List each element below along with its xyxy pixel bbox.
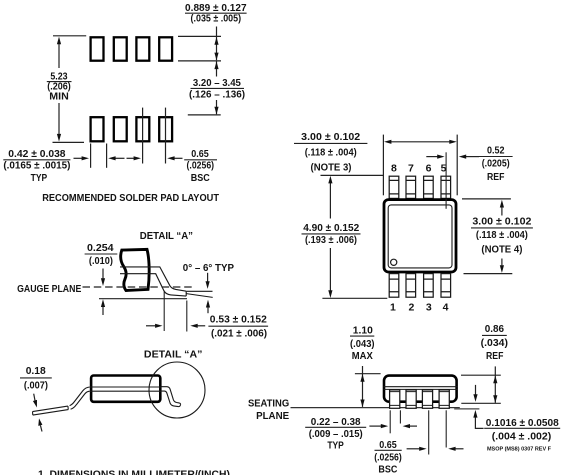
svg-text:(.007): (.007)	[24, 379, 48, 391]
fraction bar 0.65 leads	[375, 449, 402, 451]
svg-text:3: 3	[426, 302, 432, 314]
standoff tick below seating	[454, 408, 479, 410]
dim 4.90 top extension line	[321, 174, 384, 176]
arrowhead 0.889 down	[214, 53, 218, 61]
top view 3.00 dimension line	[391, 141, 450, 143]
svg-text:DETAIL “A”: DETAIL “A”	[144, 349, 203, 361]
arrowhead 0.53 right	[155, 324, 162, 328]
svg-text:RECOMMENDED SOLDER PAD LAYOUT: RECOMMENDED SOLDER PAD LAYOUT	[42, 192, 219, 204]
svg-text:(NOTE 3): (NOTE 3)	[311, 161, 352, 173]
arrowhead 0.53 left	[190, 324, 197, 328]
svg-text:0.1016 ± 0.0508: 0.1016 ± 0.0508	[486, 417, 559, 429]
dim 0.18 down arrow	[34, 394, 35, 401]
side view mold line lower	[90, 390, 162, 392]
svg-text:(.193 ± .006): (.193 ± .006)	[305, 234, 357, 246]
top view 3.00 left extension line	[382, 135, 384, 196]
dim 0.42 right-pointing arrow stem	[74, 157, 83, 159]
arrowhead 4.90 up	[328, 176, 332, 184]
svg-text:BSC: BSC	[191, 172, 210, 184]
arrowhead angle down	[206, 281, 210, 289]
pad3 center line	[142, 108, 144, 164]
svg-text:BSC: BSC	[378, 463, 397, 475]
svg-text:TYP: TYP	[327, 440, 344, 452]
svg-text:8: 8	[391, 162, 397, 174]
svg-text:(.034): (.034)	[481, 337, 508, 349]
dim 0.889 vertical stem	[216, 27, 218, 61]
dim 0.889 extension line lower	[178, 60, 221, 62]
dim 0.86 bottom tick	[461, 402, 501, 404]
arrowhead 0.65 pads right	[134, 156, 141, 160]
detail A seating reference line	[99, 298, 187, 300]
arrowhead 0.22 right	[381, 424, 388, 428]
arrowhead 1.10 up	[360, 374, 364, 382]
dim 0.65 pads left-pointing arrow stem	[174, 157, 182, 159]
lead 3 side	[422, 390, 432, 408]
pad top 1	[91, 37, 104, 60]
svg-text:4: 4	[443, 302, 449, 314]
svg-text:1. DIMENSIONS IN MILLIMETER/(I: 1. DIMENSIONS IN MILLIMETER/(INCH)	[38, 469, 230, 475]
arrowhead 0.254 up	[101, 299, 105, 307]
arrowhead 0.42 right	[82, 156, 89, 160]
dim 0.52 extension inside body	[445, 199, 447, 209]
dim 0.52 extension line through pin 5	[445, 152, 447, 209]
lead 1 inner lines	[390, 392, 400, 406]
detail A lead tip edge	[185, 291, 187, 296]
svg-text:(.118 ± .004): (.118 ± .004)	[476, 229, 528, 241]
dim 0.65 right extension line	[445, 410, 447, 447]
solder pad layout: top row pads	[91, 37, 172, 141]
arrowhead note4 up	[500, 200, 504, 208]
pad4 center line	[165, 108, 167, 164]
svg-text:TYP: TYP	[31, 172, 48, 184]
svg-text:4.90 ± 0.152: 4.90 ± 0.152	[303, 222, 359, 234]
arrowhead standoff down	[473, 394, 477, 402]
left lead flat strip	[33, 406, 69, 415]
fraction bar 1.10	[350, 335, 374, 337]
fraction bar 0.22	[305, 426, 366, 428]
dim 0.42 left-pointing arrow stem	[115, 157, 124, 159]
arrowhead 3.20 up	[214, 61, 218, 69]
svg-text:(.0205): (.0205)	[482, 158, 510, 170]
dim 0.254 down arrow stem	[102, 269, 104, 279]
svg-text:7: 7	[408, 162, 414, 174]
svg-text:0.18: 0.18	[26, 365, 46, 377]
svg-text:(.118 ± .004): (.118 ± .004)	[305, 146, 357, 158]
angle reference line horizontal	[186, 290, 212, 292]
dim 5.23 bottom extension line	[53, 141, 85, 143]
svg-text:3.00 ± 0.102: 3.00 ± 0.102	[301, 131, 360, 143]
dim 0.86 top tick	[461, 374, 501, 376]
svg-text:(.009 – .015): (.009 – .015)	[309, 428, 363, 440]
svg-text:(.0165 ± .0015): (.0165 ± .0015)	[3, 159, 70, 171]
dim 0.22 right extension line	[399, 410, 401, 423]
dim 0.18 up arrow	[40, 425, 42, 431]
fraction bar 4.90	[302, 233, 361, 235]
dim 4.90 upper stem	[329, 183, 331, 219]
dim 0.53 right-pointing arrow stem	[146, 325, 156, 327]
arrowhead 0.86 up	[493, 376, 497, 384]
pad bottom 1	[91, 117, 104, 141]
dim 5.23 arrow stem up	[58, 44, 60, 68]
svg-text:0.86: 0.86	[485, 323, 504, 335]
pin 4	[441, 274, 451, 298]
arrowhead 3.00 right	[449, 140, 456, 144]
dim 0.22 left extension line	[389, 410, 391, 433]
dim note4 upper stem	[501, 208, 503, 216]
angle reference line sloped	[186, 294, 212, 298]
svg-text:0.254: 0.254	[87, 242, 114, 254]
svg-text:0.52: 0.52	[487, 145, 505, 157]
lead 3 inner lines	[422, 392, 432, 406]
svg-text:(.0256): (.0256)	[187, 159, 215, 171]
svg-text:1.10: 1.10	[353, 324, 373, 336]
fraction bar note3	[294, 142, 367, 144]
lead 2 side	[406, 390, 416, 408]
arrowhead 0.52 right	[437, 155, 444, 159]
arrowhead 0.65 right	[419, 447, 426, 451]
svg-text:MIN: MIN	[49, 90, 69, 102]
pad bottom 3	[136, 117, 149, 141]
svg-text:2: 2	[408, 302, 414, 314]
arrowhead 0.65 pads left	[167, 156, 174, 160]
pad bottom 2	[114, 117, 127, 141]
svg-text:(.035 ± .005): (.035 ± .005)	[191, 13, 242, 25]
dim 0.1016 leader	[475, 417, 483, 429]
dim 0.53 left-pointing arrow stem	[198, 325, 206, 327]
pad top 4	[159, 37, 172, 60]
dim 1.10 stem	[362, 366, 364, 407]
svg-text:1: 1	[390, 302, 396, 314]
dim 0.22 left-pointing arrow stem	[410, 425, 417, 427]
dim 0.65 left extension line	[428, 410, 430, 454]
arrowhead 3.20 down	[214, 107, 218, 115]
svg-text:(.0256): (.0256)	[374, 452, 402, 464]
pad1 left extension line	[90, 144, 92, 168]
svg-text:REF: REF	[487, 171, 505, 183]
svg-text:0° – 6° TYP: 0° – 6° TYP	[183, 262, 234, 274]
lead 1 side	[390, 390, 400, 408]
dim 0.52 right-pointing arrow stem	[426, 156, 437, 158]
arrowhead 0.1016 up	[473, 410, 477, 418]
side view mold line upper	[90, 386, 162, 388]
svg-text:6: 6	[426, 162, 432, 174]
dim 4.90 lower stem	[329, 248, 331, 291]
fraction bar 0.18	[20, 377, 52, 379]
dim note4 top extension line	[462, 198, 511, 200]
dim note4 bottom extension line	[464, 273, 513, 275]
side view mold lines right	[384, 387, 458, 390]
dim 0.52 left-pointing arrow stem	[466, 156, 479, 158]
fraction bar 5.23	[47, 81, 72, 83]
dim 3.20 extension line	[188, 114, 221, 116]
svg-text:MSOP (MS8) 0307 REV F: MSOP (MS8) 0307 REV F	[487, 446, 552, 452]
fraction bar 0.42	[3, 159, 70, 161]
svg-text:(.004 ± .002): (.004 ± .002)	[492, 431, 552, 443]
svg-text:0.42 ± 0.038: 0.42 ± 0.038	[8, 148, 65, 160]
svg-text:MAX: MAX	[352, 350, 373, 362]
fraction bar 3.20	[191, 87, 245, 89]
fraction bar 0.52	[479, 156, 513, 158]
arrowhead 5.23 down	[57, 134, 61, 142]
arrowhead 3.00 left	[384, 140, 391, 144]
dim 5.23 arrow stem down	[58, 103, 60, 135]
angle dim down arrow stem	[207, 273, 209, 282]
dim 4.90 bottom extension line	[322, 297, 387, 299]
arrowhead 0.18 up	[38, 418, 42, 426]
right lead top line	[162, 387, 181, 405]
dim 0.65 pads right-pointing arrow stem	[127, 157, 135, 159]
pad top 2	[114, 37, 127, 60]
arrowhead 1.10 down	[360, 400, 364, 408]
angle dim up arrow stem	[207, 307, 209, 314]
fraction bar 0.53	[208, 325, 268, 327]
svg-text:(.021 ± .006): (.021 ± .006)	[211, 328, 267, 340]
detail A body edge blob	[121, 249, 149, 290]
arrowhead 0.18 down	[33, 400, 37, 408]
left lead bend top line	[70, 387, 90, 406]
pad1 right extension line	[106, 144, 108, 168]
arrowhead 0.42 left	[108, 156, 115, 160]
arrowhead 4.90 down	[328, 290, 332, 298]
svg-text:DETAIL “A”: DETAIL “A”	[140, 230, 193, 242]
pin 2	[406, 274, 416, 298]
package body outline top view	[384, 200, 456, 272]
fraction bar 0.1016	[484, 427, 560, 429]
dim 0.53 left extension line	[163, 292, 165, 332]
dim 0.53 right extension line	[186, 301, 188, 332]
dim 1.10 top tick	[355, 373, 381, 375]
svg-text:GAUGE PLANE: GAUGE PLANE	[17, 283, 81, 295]
top view 3.00 right extension line	[456, 135, 458, 196]
svg-text:0.53 ± 0.152: 0.53 ± 0.152	[210, 313, 267, 325]
right lead bottom line	[162, 391, 181, 407]
arrowhead 5.23 up	[57, 37, 61, 45]
dim 3.20 upper arrow stem	[216, 61, 218, 76]
svg-text:REF: REF	[486, 350, 504, 362]
side view body bottom-left	[91, 376, 160, 402]
pin 3	[424, 274, 434, 298]
side view body bottom-right	[384, 376, 457, 402]
dim 3.20 lower arrow stem	[216, 100, 218, 114]
fraction bar 0.86	[482, 334, 507, 336]
dim 5.23 top extension line	[53, 35, 86, 37]
fraction bar note4	[471, 227, 533, 229]
pad bottom 4	[159, 117, 172, 141]
lead 4 inner lines	[439, 392, 449, 406]
lead 2 inner lines	[406, 392, 416, 406]
detail A lead top surface	[120, 267, 186, 291]
fraction bar 0.254	[85, 253, 118, 255]
left lead bend bottom line	[71, 391, 90, 409]
svg-text:(.010): (.010)	[89, 255, 113, 267]
arrowhead 0.65 left	[448, 447, 455, 451]
svg-text:5: 5	[441, 162, 447, 174]
dim 0.65 right-pointing arrow stem	[407, 448, 420, 450]
svg-text:3.20 – 3.45: 3.20 – 3.45	[193, 77, 241, 89]
arrowhead 0.22 left	[403, 424, 410, 428]
svg-text:(.126 – .136): (.126 – .136)	[189, 88, 245, 100]
gauge plane dashed line	[83, 286, 196, 288]
detail A lead bottom surface	[120, 274, 186, 296]
arrowhead 0.254 down	[101, 278, 105, 286]
lead 4 side	[439, 390, 449, 408]
dim note4 lower stem	[501, 259, 503, 266]
pin 1	[389, 274, 399, 298]
svg-text:0.65: 0.65	[191, 148, 209, 160]
arrowhead 0.86 down	[493, 395, 497, 403]
arrowhead 0.52 left	[459, 155, 466, 159]
arrowhead angle up	[206, 300, 210, 308]
svg-text:0.65: 0.65	[379, 439, 397, 451]
svg-text:(NOTE 4): (NOTE 4)	[481, 244, 522, 256]
pin 7	[406, 176, 416, 198]
dim 0.254 up arrow stem	[102, 307, 104, 316]
svg-text:3.00 ± 0.102: 3.00 ± 0.102	[472, 216, 531, 228]
svg-text:0.22 – 0.38: 0.22 – 0.38	[311, 416, 361, 428]
pin 6	[424, 176, 434, 198]
fraction bar 0.65 pads	[184, 159, 217, 161]
pin 5	[441, 176, 451, 198]
detail A circle	[149, 362, 205, 418]
pin 8	[389, 176, 399, 198]
dim 0.65 left-pointing arrow stem	[455, 448, 463, 450]
fraction bar 0.889	[185, 12, 247, 14]
svg-text:PLANE: PLANE	[256, 410, 289, 422]
svg-text:(.043): (.043)	[350, 338, 375, 350]
arrowhead note4 down	[500, 265, 504, 273]
seating plane line	[291, 407, 460, 409]
pin 1 indicator dot	[391, 259, 397, 265]
arrowhead 0.889 up	[214, 37, 218, 45]
package body inner outline	[388, 205, 452, 268]
pad top 3	[136, 37, 149, 60]
dim 0.889 extension line upper	[178, 35, 221, 37]
dim 0.22 right-pointing arrow stem	[369, 425, 381, 427]
standoff down arrow stem	[475, 385, 477, 395]
svg-text:SEATING: SEATING	[248, 398, 289, 410]
dim 0.86 stem	[494, 366, 496, 403]
